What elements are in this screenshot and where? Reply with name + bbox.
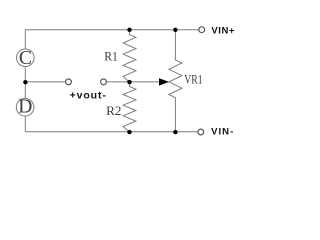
junction dot left rail [23, 80, 27, 84]
terminal vout+ [66, 79, 72, 85]
wire vout+ stub [25, 81, 65, 83]
wire wiper lead [106, 81, 160, 83]
junction dot R1 R2 node [127, 80, 131, 84]
terminal VIN- [198, 129, 204, 135]
junction dot top R1 [127, 28, 131, 32]
wire left rail [24, 30, 26, 132]
svg-text:R1: R1 [104, 48, 118, 63]
svg-text:VR1: VR1 [184, 71, 202, 86]
svg-text:R2: R2 [106, 103, 121, 118]
svg-text:D: D [18, 97, 32, 118]
svg-text:+vout-: +vout- [70, 90, 107, 102]
svg-text:VIN-: VIN- [211, 126, 234, 137]
component D circle [16, 98, 34, 116]
svg-text:C: C [19, 48, 32, 69]
resistor R2 [123, 82, 136, 132]
wiper arrow [159, 78, 169, 85]
junction dot top VR1 [173, 28, 177, 32]
junction dot bottom VR1 [173, 130, 177, 134]
svg-text:VIN+: VIN+ [211, 26, 235, 37]
wire bottom rail [25, 131, 198, 133]
component C circle [17, 49, 35, 67]
potentiometer VR1 body [169, 30, 182, 132]
junction dot bottom R2 [127, 130, 131, 134]
terminal vout- [101, 79, 107, 85]
terminal VIN+ [199, 27, 205, 33]
wire top rail [25, 29, 198, 31]
resistor R1 [123, 30, 136, 83]
